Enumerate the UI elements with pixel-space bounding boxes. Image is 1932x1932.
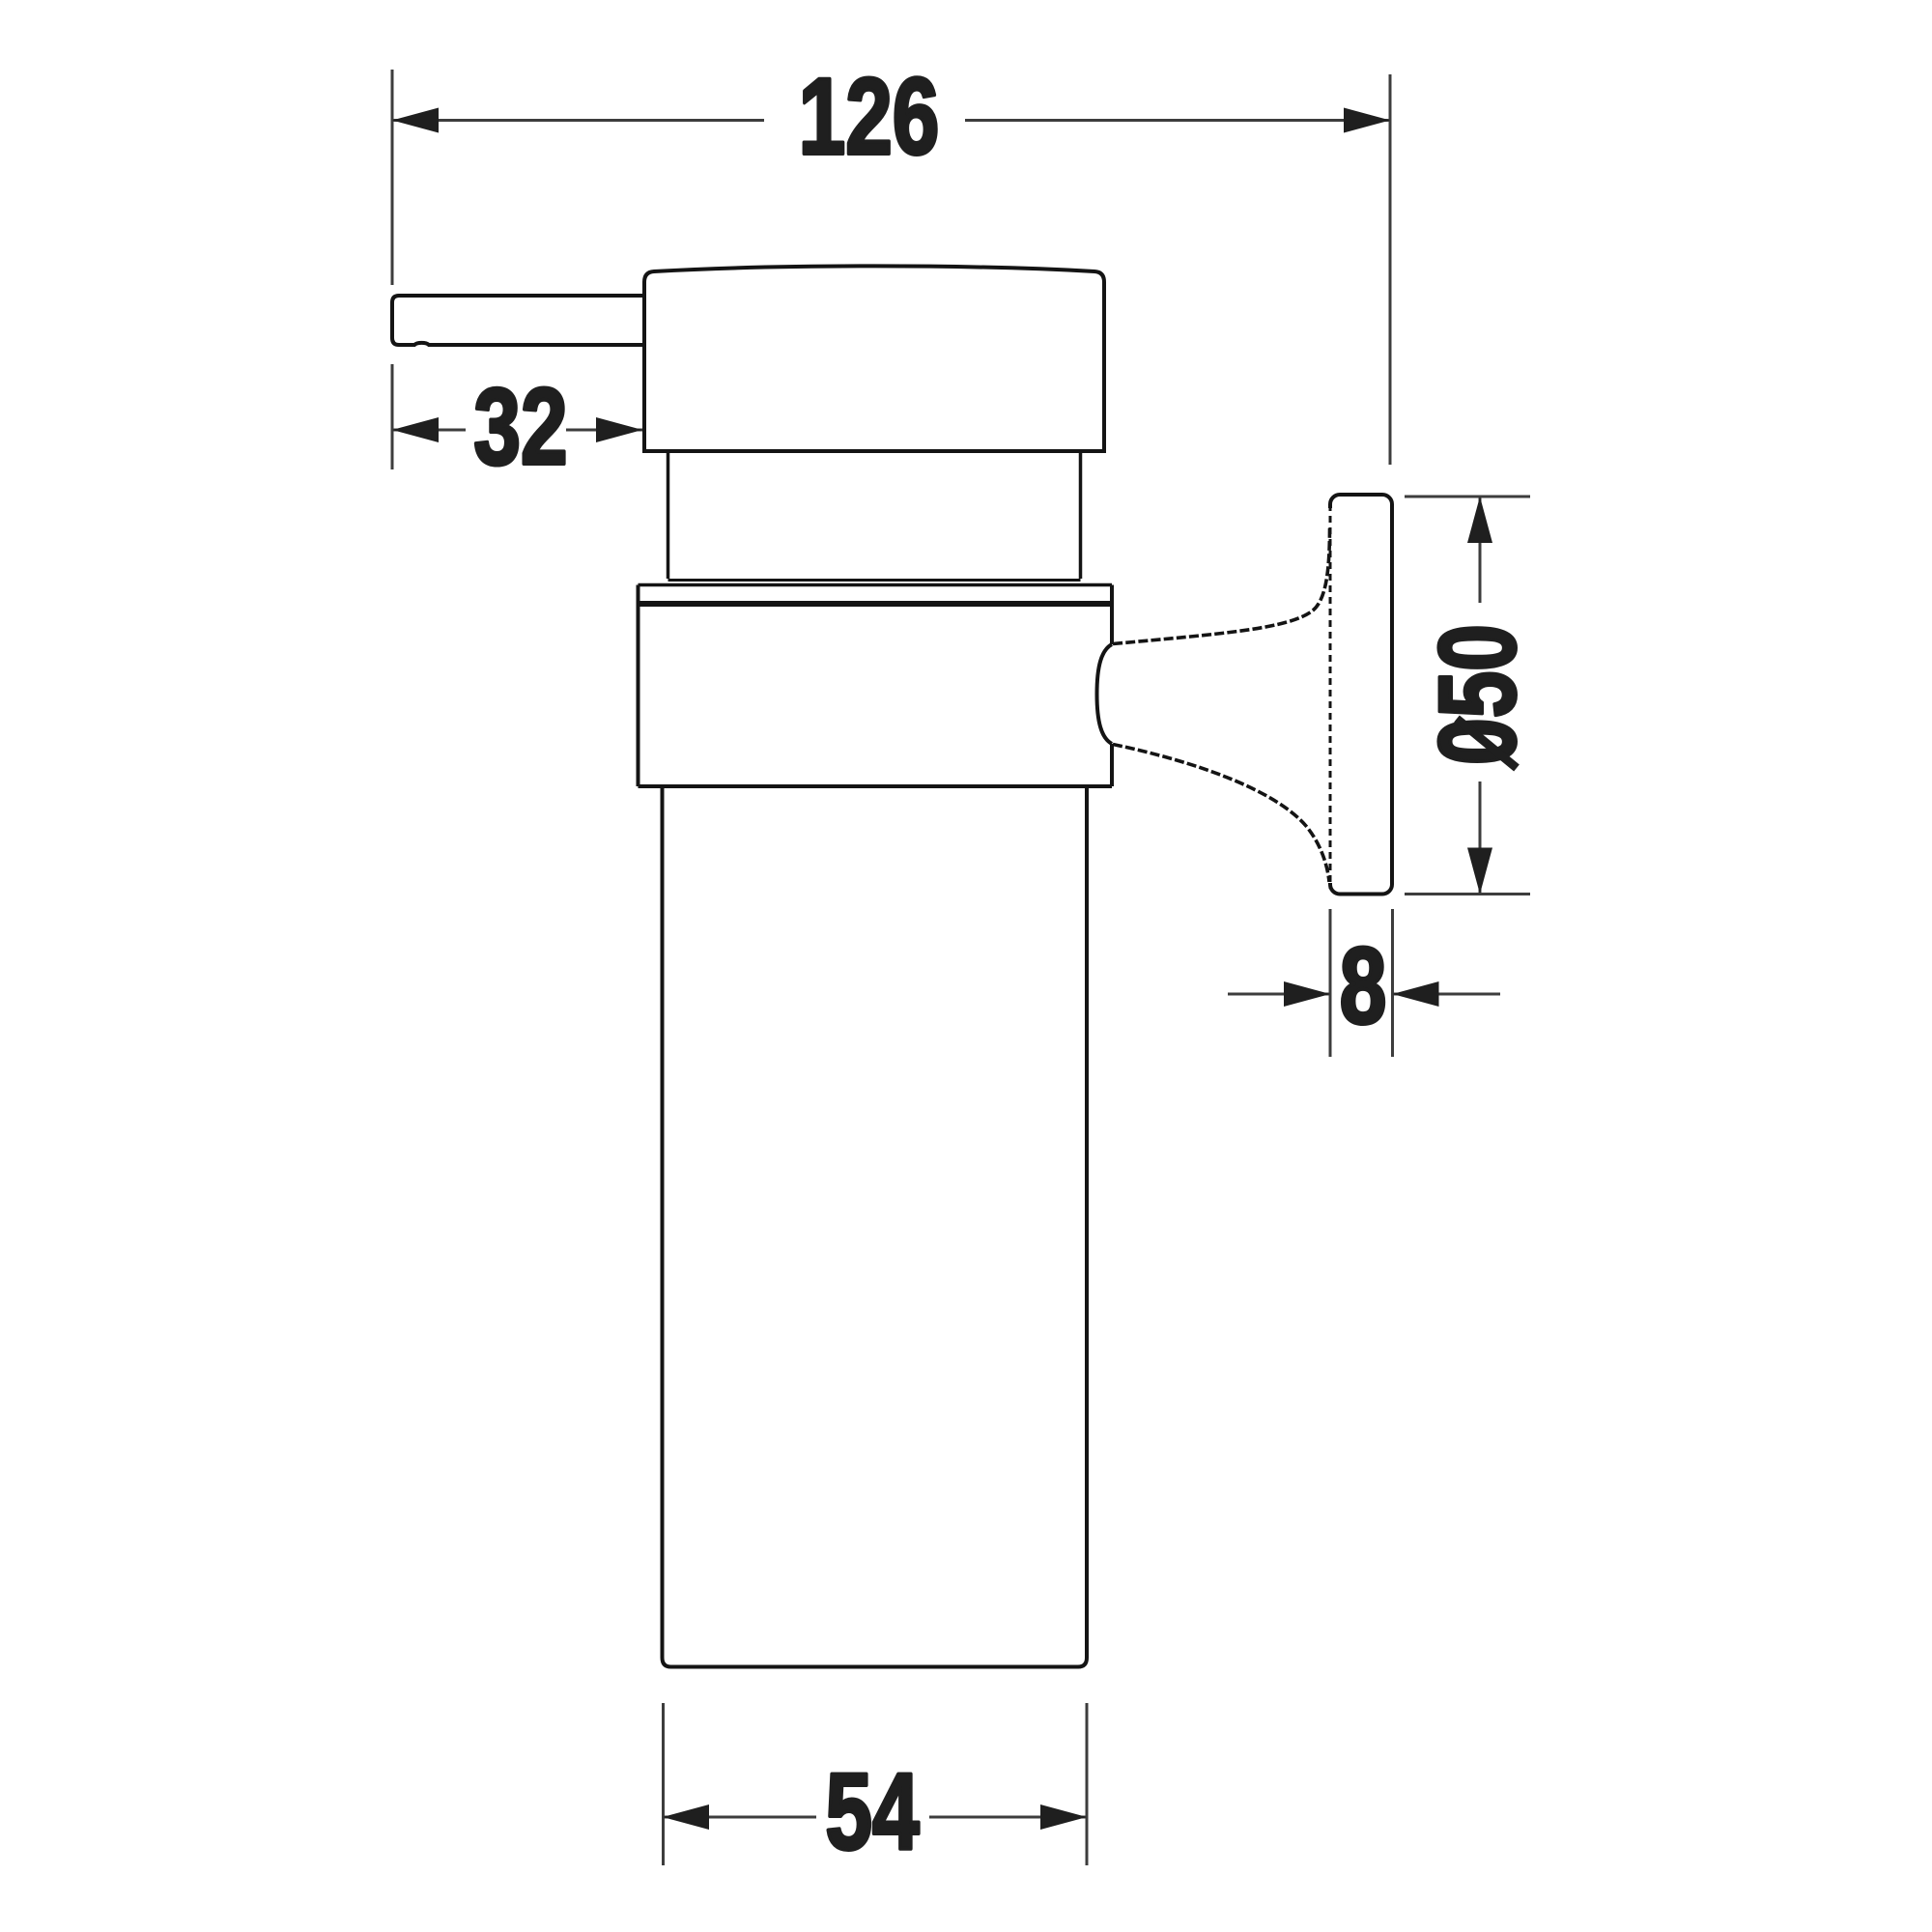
svg-text:126: 126 <box>799 57 940 178</box>
svg-text:050: 050 <box>1418 624 1539 765</box>
svg-text:54: 54 <box>825 1752 919 1873</box>
svg-text:32: 32 <box>473 367 567 488</box>
svg-text:8: 8 <box>1340 926 1387 1047</box>
